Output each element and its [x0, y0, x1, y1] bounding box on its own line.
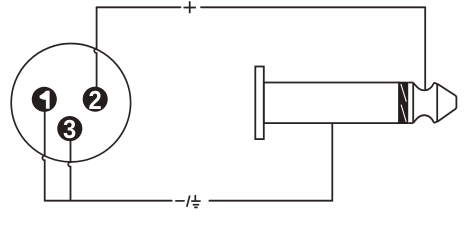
svg-text:3: 3 [63, 114, 76, 144]
svg-text:2: 2 [89, 85, 102, 115]
